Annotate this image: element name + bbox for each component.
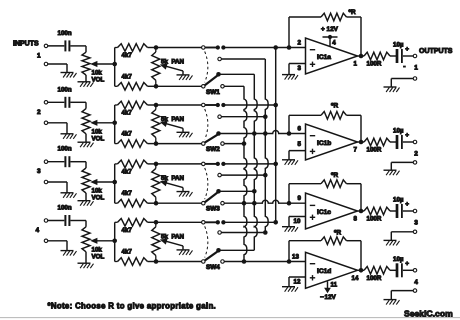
label VR3 VOL	[92, 195, 105, 202]
label VR4 VOL	[92, 253, 105, 260]
resistor 100R IC1b	[364, 138, 390, 146]
capacitor C7 10u	[397, 204, 402, 218]
label IC1c	[317, 209, 331, 216]
svg-text:7: 7	[354, 147, 358, 154]
potentiometer VR1 10k VOL	[82, 52, 90, 75]
wire input gnd 2	[48, 123, 67, 134]
wire IC1b output	[358, 141, 365, 143]
node SW1 contact A1	[216, 45, 226, 49]
label VR5 5k PAN	[161, 58, 184, 65]
resistor R* feedback IC1b	[321, 112, 347, 120]
node ch4 top bus	[154, 220, 159, 225]
node SW3-A2/bus3 junction	[263, 173, 268, 178]
node IC1b output junction	[359, 140, 364, 145]
output ground terminal 2	[413, 161, 417, 165]
switch SW1 contact B2 terminal	[221, 85, 225, 89]
switch SW4 arm A	[205, 221, 218, 223]
wiper VR3	[90, 179, 115, 185]
ground output 3	[384, 240, 400, 245]
capacitor C6 10u	[397, 135, 402, 149]
wire VR3 to ground	[85, 193, 87, 201]
capacitor C5 10u	[397, 49, 402, 63]
wire SW3 A2 to bus3	[221, 174, 265, 176]
wire SW3 A1 to bus1	[223, 163, 276, 165]
op-amp IC1b plus sign	[310, 149, 315, 154]
node SW4 contact A1	[216, 220, 226, 224]
switch SW3 arm A	[205, 163, 218, 165]
wire SW2 B2 to bus4	[224, 143, 244, 145]
output ground terminal 4	[413, 289, 417, 293]
wire IC1a feedback top left	[289, 16, 321, 18]
ground input 3	[61, 193, 77, 198]
svg-text:100n: 100n	[58, 205, 72, 212]
wire bus3 vertical	[265, 59, 268, 233]
resistor R* feedback IC1c	[321, 180, 347, 188]
node SW2 contact A1	[216, 103, 226, 107]
resistor R3b 4k7	[115, 199, 156, 207]
capacitor C2 100n	[65, 97, 69, 108]
svg-text:100n: 100n	[58, 146, 72, 153]
switch SW3 contact A2 terminal	[218, 173, 222, 177]
ground IC1d non-inverting	[282, 287, 298, 292]
wire ch2 top to SW2 pole A	[156, 104, 201, 106]
wire ch4 4k7 join	[114, 222, 116, 261]
pin 5 IC1b	[298, 141, 302, 148]
svg-text:3: 3	[414, 220, 418, 227]
wire C6 to output terminal	[403, 141, 413, 143]
capacitor C3 100n	[65, 156, 69, 167]
op-amp IC1d triangle	[306, 252, 358, 288]
wire ch1 bottom to SW1 pole B	[156, 85, 201, 87]
svg-text:4k7: 4k7	[122, 110, 133, 117]
svg-text:+ 12V: + 12V	[321, 26, 339, 33]
wire ch2 4k7 join	[114, 105, 116, 144]
svg-text:100n: 100n	[58, 30, 72, 37]
label SW3	[206, 206, 220, 213]
ground VR7	[177, 192, 193, 197]
potentiometer VR2 10k VOL	[82, 109, 90, 134]
capacitor C1 100n	[65, 40, 69, 51]
ground IC1b non-inverting	[282, 160, 298, 165]
wiper VR2	[90, 120, 115, 126]
wiper VR5	[160, 64, 183, 75]
svg-text:*R: *R	[334, 230, 341, 237]
resistor R4b 4k7	[115, 258, 156, 266]
node SW4 contact B1	[216, 248, 221, 253]
switch SW2 pole B terminal	[202, 142, 206, 146]
wire SW2 B1 to IC1b input	[219, 131, 290, 134]
ground output 4	[384, 300, 400, 305]
label R2a 4k7	[122, 110, 133, 117]
wire IC1a non-inverting input	[289, 64, 306, 75]
ground IC1c non-inverting	[282, 227, 298, 232]
pin 8 IC1c	[354, 216, 358, 223]
switch SW1 contact A2 terminal	[218, 57, 222, 61]
svg-text:10: 10	[294, 218, 301, 225]
input ground terminal 3	[44, 180, 48, 184]
wire SW4 A1 to bus1	[223, 221, 276, 223]
label output 4	[414, 279, 418, 286]
wire IC1b non-inverting input	[289, 151, 306, 160]
label *R IC1b	[331, 103, 338, 110]
svg-text:100R: 100R	[367, 147, 382, 154]
label 100R IC1c	[367, 216, 382, 223]
svg-text:OUTPUTS: OUTPUTS	[419, 48, 453, 55]
wire C4 to VR4 top	[71, 221, 87, 227]
wire input 4 to C4	[48, 220, 64, 222]
node input 4 label	[36, 227, 40, 234]
potentiometer VR8 5k PAN	[152, 222, 160, 261]
switch SW4 contact B2 terminal	[221, 260, 225, 264]
svg-text:10µ: 10µ	[393, 256, 404, 263]
node ch2 wiper junction	[112, 121, 117, 126]
label R3b 4k7	[122, 190, 133, 197]
op-amp IC1a triangle	[306, 38, 358, 74]
node input 3 label	[37, 168, 41, 175]
node ch2 top bus	[154, 103, 159, 108]
op-amp IC1c triangle	[306, 193, 358, 229]
output ground terminal 3	[413, 230, 417, 234]
switch SW1 pole A terminal	[202, 46, 206, 50]
label VR2 10k	[92, 128, 103, 135]
wire IC1c feedback top left	[289, 183, 321, 185]
capacitor C8 10u	[397, 263, 402, 277]
watermark SeekIC.com	[404, 309, 453, 319]
label R3a 4k7	[122, 168, 133, 175]
svg-text:SW3: SW3	[206, 206, 220, 213]
node SW2-B2/bus4 junction	[242, 141, 247, 146]
svg-text:10µ: 10µ	[393, 128, 404, 135]
svg-text:10µ: 10µ	[393, 197, 404, 204]
pin 10 IC1c	[294, 218, 301, 225]
wire output gnd 1	[391, 79, 413, 88]
wire SW3 B2 to IC1c input	[224, 200, 289, 203]
wiper VR6	[160, 121, 183, 132]
node bus4 bottom end	[242, 259, 247, 264]
switch SW3 contact B2 terminal	[221, 201, 225, 205]
label OUTPUTS	[419, 48, 453, 55]
wire VR1 to ground	[85, 75, 87, 82]
wire ch4 bottom to SW4 pole B	[156, 261, 201, 263]
label C7 plus	[405, 201, 409, 208]
label C5 plus	[405, 46, 409, 53]
wire C8 to output terminal	[403, 269, 413, 271]
wire IC1c non-inverting input	[289, 217, 306, 227]
svg-text:*R: *R	[349, 9, 356, 16]
wire C5 to output terminal	[403, 55, 413, 57]
node ch4 bottom bus	[154, 259, 159, 264]
input terminal 2	[44, 101, 48, 105]
input ground terminal 2	[44, 121, 48, 125]
wire SW2 A1 to bus1	[223, 104, 276, 106]
label IC1b	[317, 140, 331, 147]
label VR8 5k PAN	[161, 233, 184, 240]
wire ch3 bottom to SW3 pole B	[156, 202, 201, 204]
label VR1 10k	[92, 70, 103, 77]
wire pin11 -12V	[324, 282, 331, 294]
wire ch4 top to SW4 pole A	[156, 221, 201, 223]
svg-text:VOL: VOL	[92, 195, 105, 202]
label VR6 5k PAN	[161, 116, 184, 123]
svg-text:2: 2	[37, 109, 41, 116]
switch SW2 gang link	[205, 109, 208, 140]
wiper VR8	[160, 239, 183, 250]
wire ch1 top to SW1 pole A	[156, 47, 201, 49]
wire 100R to C6	[390, 141, 396, 143]
switch SW3 arm B	[205, 193, 218, 203]
svg-text:4k7: 4k7	[122, 249, 133, 256]
wire IC1a feedback top right	[347, 17, 362, 56]
node ch1 wiper junction	[112, 62, 117, 67]
svg-text:10k: 10k	[92, 188, 103, 195]
node IC1d output junction	[359, 268, 364, 273]
svg-text:100R: 100R	[367, 61, 382, 68]
svg-text:11: 11	[331, 282, 338, 289]
wire input 3 to C3	[48, 161, 64, 163]
pin 14 IC1d	[352, 275, 359, 282]
label 100R IC1d	[367, 275, 382, 282]
note text	[48, 302, 217, 311]
ground output 2	[384, 170, 400, 175]
node ch3 bottom bus	[154, 201, 159, 206]
wire output gnd 3	[391, 232, 413, 241]
switch SW4 pole B terminal	[202, 260, 206, 264]
label output 3	[414, 220, 418, 227]
svg-text:8: 8	[354, 216, 358, 223]
wiper VR1	[90, 61, 115, 67]
svg-text:10k: 10k	[92, 128, 103, 135]
resistor R2a 4k7	[115, 101, 156, 109]
op-amp IC1d plus sign	[310, 275, 315, 280]
output terminal 1	[413, 54, 417, 58]
resistor R2b 4k7	[115, 140, 156, 148]
node input 2 label	[37, 109, 41, 116]
label C5 10u	[393, 42, 404, 49]
wire SW3 B1 to bus2	[221, 190, 255, 192]
wire IC1c feedback left	[288, 184, 290, 204]
node IC1c output junction	[359, 209, 364, 214]
svg-text:IC1c: IC1c	[317, 209, 331, 216]
wire input 2 to C2	[48, 101, 64, 103]
wire IC1c output	[358, 210, 365, 212]
label C1 100n	[58, 30, 72, 37]
switch SW4 contact A2 terminal	[218, 231, 222, 235]
label output 2	[414, 151, 418, 158]
ground input 4	[61, 251, 77, 256]
wire 100R to C7	[390, 210, 396, 212]
op-amp IC1d minus sign	[310, 263, 315, 265]
switch SW4 gang link	[205, 226, 208, 257]
wire ch1 4k7 join	[114, 48, 116, 87]
wire bus1 vertical	[275, 48, 277, 223]
capacitor C4 100n	[65, 215, 69, 226]
resistor R4a 4k7	[115, 219, 156, 227]
node ch4 wiper junction	[112, 239, 117, 244]
label R4a 4k7	[122, 227, 133, 234]
switch SW3 gang link	[205, 168, 208, 199]
wire C1 to VR1 top	[71, 46, 87, 52]
svg-text:1: 1	[354, 61, 358, 68]
node SW3-B1/bus2 junction	[252, 189, 257, 194]
node bus1 bottom end	[273, 220, 278, 225]
wire SW4 B2 to IC1d input	[224, 261, 289, 263]
bottom rule	[0, 317, 460, 319]
pin 6 IC1b	[298, 126, 302, 133]
ground VR2	[78, 142, 94, 147]
wire IC1b feedback left	[288, 115, 290, 133]
svg-text:2: 2	[298, 40, 302, 47]
svg-text:4k7: 4k7	[122, 190, 133, 197]
svg-text:14: 14	[352, 275, 359, 282]
wire IC1d output	[358, 269, 365, 271]
label C3 100n	[58, 146, 72, 153]
node SW1 contact B1	[216, 72, 221, 77]
wire SW1 B1 to bus2	[221, 73, 255, 75]
node IC1a inverting input	[287, 45, 292, 50]
svg-text:13: 13	[292, 254, 299, 261]
label INPUTS	[13, 41, 39, 48]
node SW3 contact B1	[216, 189, 221, 194]
wire SW2 A2 to bus3	[221, 116, 265, 118]
ground output 1	[384, 87, 400, 92]
pin 2 IC1a	[298, 40, 302, 47]
node ch1 top bus	[154, 45, 159, 50]
svg-text:IC1b: IC1b	[317, 140, 331, 147]
svg-text:12: 12	[294, 279, 301, 286]
label R2b 4k7	[122, 131, 133, 138]
node SW2-A2/bus3 junction	[263, 114, 268, 119]
wire input gnd 3	[48, 182, 67, 193]
wire bus4 vertical	[244, 86, 247, 261]
pin 12 IC1d	[294, 279, 301, 286]
switch SW2 contact B2 terminal	[221, 142, 225, 146]
wire 100R to C8	[390, 269, 396, 271]
label C7 10u	[393, 197, 404, 204]
switch SW2 arm A	[205, 104, 218, 106]
svg-text:4k7: 4k7	[122, 52, 133, 59]
wire input gnd 4	[48, 241, 67, 251]
svg-text:10µ: 10µ	[393, 42, 404, 49]
potentiometer VR3 10k VOL	[82, 168, 90, 193]
ground VR6	[177, 132, 193, 137]
svg-text:SeekIC.com: SeekIC.com	[404, 309, 453, 319]
input ground terminal 1	[44, 62, 48, 66]
svg-text:SW1: SW1	[206, 89, 220, 96]
wire IC1c inverting input	[289, 202, 306, 204]
wiper VR7	[160, 180, 183, 191]
node bus3 bottom end	[263, 230, 268, 235]
switch SW2 arm B	[205, 135, 218, 143]
resistor R* feedback IC1d	[321, 237, 347, 245]
svg-text:+: +	[405, 132, 409, 139]
svg-text:*Note: Choose R to give approp: *Note: Choose R to give appropriate gain…	[48, 302, 217, 311]
op-amp IC1b triangle	[306, 124, 358, 160]
label VR3 10k	[92, 188, 103, 195]
label SW2	[206, 146, 220, 153]
node SW3 contact A1	[216, 162, 226, 166]
svg-text:10k: 10k	[92, 246, 103, 253]
wire SW4 B1 to bus2	[221, 249, 255, 251]
switch SW4 pole A terminal	[202, 221, 206, 225]
pin 13 IC1d	[292, 254, 299, 261]
wire SW1 A1 to IC1a input	[223, 47, 289, 49]
wire input gnd 1	[48, 64, 67, 73]
switch SW3 pole B terminal	[202, 201, 206, 205]
node ch3 wiper junction	[112, 180, 117, 185]
svg-text:4: 4	[332, 40, 336, 47]
wire VR4 to ground	[85, 252, 87, 263]
label 100R IC1b	[367, 147, 382, 154]
node ch1 bottom bus	[154, 84, 159, 89]
svg-text:10k: 10k	[92, 70, 103, 77]
svg-text:IC1a: IC1a	[317, 54, 331, 61]
wire SW1 A2 to bus3	[221, 58, 265, 60]
node SW2 contact B1	[216, 131, 221, 136]
label R4b 4k7	[122, 249, 133, 256]
label VR2 VOL	[92, 135, 105, 142]
switch SW3 pole A terminal	[202, 162, 206, 166]
pin 1 IC1a	[354, 61, 358, 68]
output ground terminal 1	[413, 77, 417, 81]
wire IC1a output	[358, 55, 365, 57]
potentiometer VR7 5k PAN	[152, 164, 160, 203]
label C4 100n	[58, 205, 72, 212]
wire IC1a inverting input	[289, 47, 306, 49]
label C2 100n	[58, 86, 72, 93]
pin 4 IC1a	[332, 40, 336, 47]
svg-text:6: 6	[298, 126, 302, 133]
node bus4/IC1c junction	[242, 201, 247, 206]
label *R IC1d	[334, 230, 341, 237]
svg-text:4k7: 4k7	[122, 227, 133, 234]
resistor 100R IC1a	[364, 52, 390, 60]
svg-text:2: 2	[414, 151, 418, 158]
wire C3 to VR3 top	[71, 162, 87, 168]
svg-text:-: -	[403, 64, 406, 71]
wire IC1d feedback top right	[347, 241, 362, 271]
label VR1 VOL	[92, 77, 105, 84]
wire IC1a feedback left	[288, 17, 290, 48]
resistor R* feedback IC1a	[321, 13, 347, 21]
node IC1c inverting input	[287, 201, 292, 206]
svg-text:*R: *R	[331, 103, 338, 110]
node IC1a output junction	[359, 54, 364, 59]
switch SW1 arm A	[205, 47, 218, 49]
label R1a 4k7	[122, 52, 133, 59]
label C5 minus	[403, 64, 406, 71]
label C6 10u	[393, 128, 404, 135]
label C6 plus	[405, 132, 409, 139]
switch SW1 arm B	[205, 76, 218, 86]
potentiometer VR6 5k PAN	[152, 105, 160, 144]
wire ch2 bottom to SW2 pole B	[156, 143, 201, 145]
wire IC1c feedback top right	[347, 184, 362, 211]
node bus3/IC1b junction	[263, 131, 268, 136]
svg-text:IC1d: IC1d	[317, 268, 331, 275]
label SW1	[206, 89, 220, 96]
label output 1	[414, 65, 418, 72]
wire C7 to output terminal	[403, 210, 413, 212]
wire SW1 B2 to bus4	[224, 85, 244, 87]
switch SW2 contact A2 terminal	[218, 115, 222, 119]
label SW4	[206, 264, 220, 271]
power -12V	[320, 294, 336, 301]
svg-text:4: 4	[414, 279, 418, 286]
resistor 100R IC1c	[364, 207, 390, 215]
pin 3 IC1a	[298, 65, 302, 72]
resistor R1a 4k7	[115, 44, 156, 52]
svg-text:4: 4	[36, 227, 40, 234]
